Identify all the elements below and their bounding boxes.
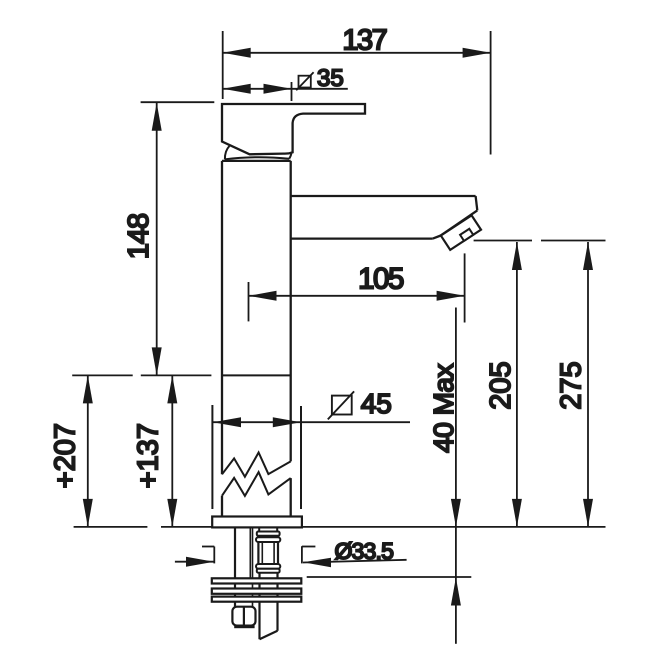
dim 148 extension top <box>141 101 215 103</box>
dim 275 arrow down <box>583 499 593 527</box>
dim +207 arrow down <box>83 499 93 527</box>
aerator extension line <box>464 253 466 322</box>
dim 40max up arrow <box>451 578 461 606</box>
supply hose angled end <box>260 631 278 639</box>
escutcheon outer line right <box>300 406 302 509</box>
square symbol 45 slash <box>328 391 354 419</box>
supply hose right edge <box>276 573 278 631</box>
aerator housing <box>441 215 481 250</box>
svg-text:35: 35 <box>317 65 344 92</box>
counter line a <box>74 526 148 528</box>
supply fitting body outer <box>258 542 278 564</box>
svg-text:40 Max: 40 Max <box>428 363 459 452</box>
dim 148 arrow up <box>152 103 162 131</box>
svg-text:+207: +207 <box>50 423 82 488</box>
dim 205 arrow up <box>512 242 522 270</box>
svg-text:+137: +137 <box>133 423 165 488</box>
dim 33.5 right bracket top <box>302 546 316 548</box>
dim 40max through-counter segment <box>455 527 457 577</box>
spout bottom edge <box>291 237 433 239</box>
washer stack band 2 <box>212 589 301 594</box>
dim 205 arrow down <box>512 499 522 527</box>
supply fitting neck <box>259 528 277 532</box>
cartridge collar arch <box>225 157 289 159</box>
dim 105 line <box>249 295 465 297</box>
dim 275 line <box>587 242 589 527</box>
break zigzag upper <box>222 453 291 477</box>
dim 137 extension line left <box>222 31 224 99</box>
dim 35 arrow left <box>223 84 251 94</box>
square symbol 45 <box>332 396 352 415</box>
supply fitting lower band <box>257 569 280 573</box>
dim 33.5 left bracket top <box>202 546 214 548</box>
dim 137 arrow left <box>223 48 251 58</box>
nut facet line <box>243 607 245 626</box>
dim 33.5 right bracket tick <box>301 546 303 563</box>
dim 35 line <box>223 88 348 90</box>
spout top edge <box>291 195 476 197</box>
threaded stud left edge <box>234 528 236 607</box>
dim 33.5 right arrow <box>303 558 331 568</box>
dim 45 arrow left <box>213 417 241 427</box>
cartridge collar right arc <box>289 153 291 159</box>
supply fitting upper collar <box>256 537 280 542</box>
dim 33.5 leader line <box>303 560 407 563</box>
escutcheon outer line left <box>211 405 213 509</box>
faucet handle body <box>222 104 365 154</box>
body column right edge upper <box>290 161 292 462</box>
svg-text:275: 275 <box>555 361 587 409</box>
dim 45 line <box>213 421 410 423</box>
body column right edge lower <box>290 478 292 516</box>
spout bottom kink <box>433 236 441 239</box>
extension line mid left a <box>72 374 133 376</box>
dim 40max lower line <box>455 578 457 644</box>
supply fitting lower collar <box>256 564 280 569</box>
svg-text:137: 137 <box>342 25 386 57</box>
dim 33.5 left arrow <box>186 557 214 567</box>
body column top edge <box>222 160 291 162</box>
threaded stud thread line <box>249 528 251 578</box>
svg-text:148: 148 <box>123 214 155 259</box>
body column left edge upper <box>221 161 223 474</box>
svg-text:Ø33.5: Ø33.5 <box>334 538 393 564</box>
dim 105 arrow right <box>437 291 465 301</box>
dim 137 arrow right <box>463 48 491 58</box>
square symbol 35 slash <box>296 72 313 90</box>
square symbol 35 <box>299 76 311 88</box>
dim 148 arrow down <box>152 347 162 375</box>
dim +137 arrow down <box>167 499 177 527</box>
dim 137 line <box>223 52 491 54</box>
handle cartridge dome arc left <box>225 146 230 159</box>
svg-text:205: 205 <box>485 361 517 409</box>
dim 105 arrow left <box>249 291 277 301</box>
svg-text:45: 45 <box>361 388 392 419</box>
dim 205 line <box>516 242 518 527</box>
counter line c <box>303 526 606 528</box>
dim 33.5 left arrow line <box>175 561 214 563</box>
dim 35 arrow right <box>264 84 292 94</box>
extension line mid left b <box>141 374 212 376</box>
washer stack band 3 <box>212 597 301 602</box>
counter line b <box>161 526 212 528</box>
dim 40max upper line <box>455 308 457 527</box>
spout end edge <box>476 196 478 210</box>
dim 148 line <box>156 103 158 375</box>
base plate <box>212 517 302 528</box>
dim 45 arrow right <box>273 417 301 427</box>
svg-text:105: 105 <box>358 263 404 296</box>
dim 35 tick <box>291 82 293 101</box>
body feature line <box>222 374 291 376</box>
supply hose left edge <box>258 573 260 640</box>
threaded stud right edge <box>252 528 254 607</box>
dim +137 arrow up <box>167 375 177 403</box>
body column left edge lower <box>221 496 223 517</box>
supply fitting body inner <box>262 542 274 564</box>
counter underside line <box>307 576 472 578</box>
break zigzag lower <box>222 472 291 496</box>
supply fitting top band <box>257 532 280 536</box>
washer stack band 1 <box>212 578 301 583</box>
dim 275 arrow up <box>583 242 593 270</box>
dim 40max down arrow <box>451 499 461 527</box>
dim +207 line <box>87 375 89 527</box>
dim +137 line <box>171 375 173 527</box>
spout height extension b <box>541 240 606 242</box>
dim 137 extension line right <box>490 31 492 155</box>
nut washer below <box>234 625 254 628</box>
spout height extension a <box>474 240 532 242</box>
dim +207 arrow up <box>83 375 93 403</box>
mounting nut <box>232 607 255 626</box>
dim 33.5 left bracket tick <box>213 547 215 564</box>
dim 105 left tick <box>248 282 250 321</box>
spout face diagonal <box>441 210 478 235</box>
